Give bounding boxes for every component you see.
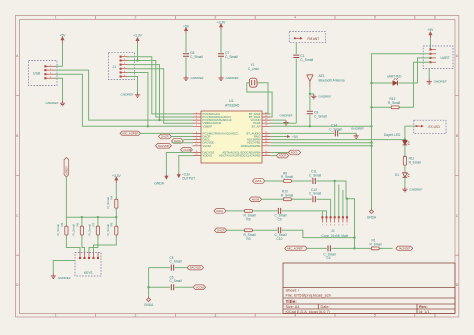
svg-text:GNDREF: GNDREF (318, 94, 331, 98)
wire VCOM to U1 (191, 145, 194, 147)
capacitor C5 (149, 256, 187, 271)
connector UART pin 2 (430, 53, 436, 54)
wire J1 pin3 to row3 net (127, 65, 159, 121)
global label DACVDD bottom (187, 265, 203, 270)
wire C5 C6 left rail (148, 268, 150, 297)
connector USB pin 1 (45, 65, 56, 67)
svg-text:R5: R5 (60, 222, 64, 226)
crystal Y1 (248, 63, 259, 87)
U1 left pin names (203, 112, 240, 158)
svg-text:R7: R7 (91, 222, 95, 226)
junction J1 pin3 (158, 119, 160, 121)
resistor R11 (403, 156, 421, 172)
power +3.3V P2 (133, 34, 143, 44)
ground GNDREF J1 (120, 92, 140, 97)
connector J2 USB dashed box (28, 61, 57, 86)
svg-text:AVOL: AVOL (255, 179, 262, 183)
capacitor C9 (275, 208, 327, 222)
power +5V P3 (183, 24, 190, 33)
diode D1 (395, 173, 410, 187)
svg-text:VCOM: VCOM (203, 144, 212, 148)
svg-text:R_Small: R_Small (409, 160, 421, 164)
wire UART pin2 rail left (372, 54, 431, 209)
ground GNDREF D1 (402, 187, 422, 192)
wire antenna down (309, 87, 311, 110)
svg-text:GNDREF: GNDREF (434, 79, 447, 83)
svg-text:GNDREF: GNDREF (226, 76, 239, 80)
svg-text:AE1: AE1 (319, 74, 325, 78)
svg-text:ATS32R6: ATS32R6 (225, 103, 240, 107)
svg-text:GNDREF: GNDREF (191, 76, 204, 80)
wire U1 DODGATE to rail (270, 145, 371, 147)
junction day LED (404, 138, 406, 140)
svg-text:R6: R6 (75, 222, 79, 226)
wire U1 BT_AP long right (270, 125, 371, 127)
junction DODGATE rail (370, 145, 372, 147)
power flag GNDA below U1 (154, 175, 168, 186)
wire DACL to U1 (183, 139, 193, 141)
resistor R6a (265, 171, 312, 182)
ground GNDREF U1 row3 (270, 113, 292, 125)
wire J1 pin4 to IC row4 (127, 69, 193, 124)
wire extra drop J3 pin6 (342, 190, 344, 217)
junction ADC7 rail (370, 142, 372, 144)
svg-text:Size: A4: Size: A4 (286, 305, 300, 309)
LED D2 Day/nt (384, 133, 410, 157)
svg-text:MIC_AGREF: MIC_AGREF (287, 247, 303, 251)
title block text size date (286, 305, 430, 314)
resistor R10 (262, 190, 312, 201)
svg-text:+5V: +5V (427, 28, 434, 32)
resistor R8 (94, 217, 118, 252)
svg-text:C_Small: C_Small (309, 192, 321, 196)
svg-text:JACKDET: JACKDET (398, 247, 411, 251)
svg-text:+3.3V: +3.3V (217, 21, 227, 25)
wire U1 ADC7 to rail (270, 142, 371, 144)
junction keys rail 1 (81, 216, 83, 218)
svg-text:R_Small: R_Small (88, 224, 92, 236)
svg-text:ADCR: ADCR (279, 154, 287, 158)
connector FM ANT dashed box (289, 32, 325, 43)
frame row ticks left (16, 96, 20, 256)
svg-text:FM ANT: FM ANT (308, 37, 320, 41)
frame row letters left (16, 54, 19, 287)
wire DACR to U1 (171, 136, 193, 138)
wire +3.3V to J1 pin1 (137, 44, 139, 61)
junction pin7 jog (346, 198, 348, 200)
capacitor C8 decoupling (183, 34, 203, 76)
op-amp U1 body (201, 99, 262, 163)
title block (283, 263, 455, 314)
wire USB pin3 to IC VSBDP (55, 74, 193, 126)
wire DACVDD to U1 (171, 142, 193, 144)
svg-text:2: 2 (135, 314, 137, 318)
svg-text:+3.3V: +3.3V (112, 174, 122, 178)
wire J1 pin6 to ground (127, 77, 137, 93)
global label DACL bottom (214, 209, 226, 214)
capacitor C8 bluetooth (307, 110, 327, 126)
svg-text:R_Small: R_Small (281, 193, 293, 197)
svg-text:Rev:: Rev: (419, 304, 428, 309)
svg-text:R3: R3 (247, 237, 251, 241)
svg-text:4: 4 (294, 314, 296, 318)
global label DACVDD left (156, 144, 172, 149)
global label VCOM left (181, 148, 193, 153)
ground GNDREF UART (427, 69, 447, 85)
svg-text:2: 2 (135, 16, 137, 20)
junction C6 rail (147, 286, 149, 288)
wire MIC_AGREF to U1 (140, 132, 193, 134)
junction keys rail 2 (97, 216, 99, 218)
wire ADKEY down (66, 177, 116, 217)
svg-text:DACVDD: DACVDD (190, 266, 201, 270)
power GNDA right rail (367, 209, 377, 220)
svg-text:1: 1 (55, 16, 57, 20)
junction J1 pin2 +3.3V (136, 59, 138, 61)
frame column ticks bottom (96, 314, 415, 318)
svg-text:Date:: Date: (321, 305, 330, 309)
capacitor C12 (309, 188, 331, 202)
connector KEYS pin 4 (93, 252, 94, 258)
power flag +3.3V OUTPUT (177, 173, 195, 181)
svg-text:5: 5 (374, 314, 376, 318)
junction LED rail left (370, 82, 372, 84)
global label DACL left (172, 139, 184, 144)
svg-text:GNDREF: GNDREF (280, 113, 293, 117)
svg-text:C_Small: C_Small (309, 173, 321, 177)
global label JACKDET (396, 246, 413, 251)
svg-text:DACR: DACR (217, 228, 225, 232)
svg-text:R_Small: R_Small (388, 101, 400, 105)
connector J1 dashed box (108, 53, 134, 80)
svg-text:R_Small: R_Small (106, 197, 110, 209)
frame column numbers bottom (55, 314, 436, 318)
wire +5V to UART pin1 (429, 38, 431, 50)
global label AVOR (249, 197, 261, 202)
svg-text:U1: U1 (229, 99, 234, 103)
power +5V UART P5 (427, 28, 434, 38)
svg-text:ADKEY: ADKEY (65, 166, 69, 175)
global label ADKEY vertical (64, 158, 69, 177)
connector KEYS pin 2 (84, 252, 85, 258)
svg-text:+3.3V: +3.3V (133, 34, 143, 38)
junction row A drop (334, 180, 336, 182)
svg-text:3: 3 (214, 314, 216, 318)
svg-text:C_Small: C_Small (314, 114, 327, 118)
svg-text:Bluetooth Antenna: Bluetooth Antenna (319, 78, 345, 82)
svg-text:3: 3 (214, 16, 216, 20)
resistor R4 (106, 183, 118, 217)
junction keys rail 3 (115, 216, 117, 218)
capacitor C4 (307, 245, 354, 260)
frame row letters right (456, 54, 459, 287)
svg-text:GNDREF: GNDREF (58, 276, 71, 280)
connector J1 pin 1 (120, 55, 129, 57)
power GNDA bottom left (144, 297, 154, 307)
connector J1 pin 2 (120, 59, 129, 61)
svg-text:J3: J3 (331, 229, 335, 233)
power +5V P1 (60, 34, 67, 43)
svg-text:DACVDD: DACVDD (158, 144, 169, 148)
wire UART pin3 to LED row (418, 58, 431, 83)
svg-text:GNDREF: GNDREF (45, 101, 58, 105)
title block text sheet (286, 287, 331, 297)
svg-text:uART R/D: uART R/D (387, 75, 402, 79)
svg-text:OUTPUT: OUTPUT (182, 176, 195, 180)
ground GNDREF KEYS (51, 274, 71, 280)
svg-text:GNDA: GNDA (154, 182, 165, 186)
svg-text:DODGATE/PB2: DODGATE/PB2 (241, 144, 261, 148)
connector KEYS dashed box (75, 253, 101, 277)
capacitor C1 FM coupling (293, 43, 313, 124)
frame column numbers top (55, 16, 436, 20)
svg-text:DACL: DACL (216, 209, 224, 213)
connector USB pin 4 (45, 77, 56, 79)
svg-text:+5V: +5V (292, 135, 299, 139)
svg-text:GNDA: GNDA (144, 303, 154, 307)
connector J3 pin numbers (322, 225, 349, 227)
svg-text:C_unse: C_unse (248, 67, 259, 71)
wire extra drop J3 pin5 (338, 185, 340, 218)
global label MIC_AGREF (120, 131, 140, 136)
connector J1 pin 4 (120, 67, 129, 69)
svg-text:GNDREF: GNDREF (409, 187, 422, 191)
global label DACR bottom (215, 228, 227, 233)
svg-text:KEYS: KEYS (84, 271, 93, 275)
wire row B to J3 pin3 (330, 199, 332, 217)
wire J3 pin7 from jog (346, 199, 348, 218)
svg-text:ADCTA/AUXOR/SDOCLATA/PB5: ADCTA/AUXOR/SDOCLATA/PB5 (219, 154, 261, 158)
svg-text:EX LED: EX LED (429, 125, 441, 129)
svg-text:6: 6 (434, 314, 436, 318)
resistor R3 (227, 229, 277, 241)
wire J1 pin2 to IC row2 (127, 61, 193, 118)
connector KEYS pin 5 (97, 252, 98, 258)
svg-text:D1: D1 (395, 173, 399, 177)
frame row ticks right (455, 96, 459, 256)
U1 left pin stubs (193, 114, 201, 156)
wire +5V to USB pin1 (62, 43, 64, 66)
svg-text:C10: C10 (277, 237, 283, 241)
svg-text:VCOM: VCOM (183, 148, 192, 152)
connector J3 labels (322, 229, 349, 238)
svg-text:C_Small: C_Small (329, 128, 342, 132)
ground GNDREF antenna (310, 94, 331, 99)
svg-text:KiCad E.D.A. kicad (6.0.7): KiCad E.D.A. kicad (6.0.7) (286, 310, 331, 314)
U1 right pin names (219, 112, 261, 158)
svg-text:Conn_01x08_Male: Conn_01x08_Male (322, 234, 349, 238)
connector UART pin 3 (430, 57, 436, 58)
resistor R12 (372, 97, 414, 109)
svg-text:GNDREF: GNDREF (120, 93, 133, 97)
svg-text:GNDREF: GNDREF (351, 127, 364, 131)
svg-text:R_Small: R_Small (281, 175, 293, 179)
svg-text:6: 6 (434, 16, 436, 20)
resistor R1 (355, 239, 393, 250)
svg-text:C9: C9 (278, 217, 282, 221)
wire row A to J3 pin4 (334, 181, 336, 217)
LED D3 uART R/D (372, 75, 418, 86)
ground GNDREF C7 (218, 76, 238, 81)
svg-text:+5V: +5V (60, 34, 67, 38)
wire crystal right to U1 row1 (257, 83, 270, 114)
junction C8bt row (309, 125, 311, 127)
global label AVOL (253, 179, 265, 184)
connector J1 pin 5 (120, 71, 129, 73)
ground GNDREF USB (45, 101, 65, 106)
svg-text:R_Small: R_Small (106, 224, 110, 236)
svg-text:Day/nt LED: Day/nt LED (384, 133, 401, 137)
global label MIC_AGREF bottom (285, 246, 307, 251)
svg-text:UART: UART (441, 56, 450, 60)
connector USB pin 2 (45, 68, 56, 70)
svg-text:DACR: DACR (161, 135, 169, 139)
wire U1 VDDVS to +3.3V output flag (179, 156, 193, 173)
wire UART pin4 to R12 row (414, 62, 431, 107)
svg-text:C_Small: C_Small (225, 55, 238, 59)
wire KEYS to ground (53, 261, 75, 274)
power flag +5V right of U1 (270, 135, 298, 139)
global label ADCR right (270, 153, 288, 158)
resistor R5 (56, 217, 80, 252)
global label VCOM bottom (193, 285, 205, 290)
svg-text:GNDA: GNDA (367, 215, 377, 219)
capacitor C14 on BT_AUDIO (270, 124, 356, 137)
wire U1 row4 to C1 (270, 122, 296, 124)
junction row5 rail (370, 125, 372, 127)
svg-text:4: 4 (294, 16, 296, 20)
svg-text:File: BT5Stproj.kicad_sch: File: BT5Stproj.kicad_sch (286, 293, 331, 298)
wire USB pin1 to +5V (55, 65, 62, 67)
wire EX LED to day LED (405, 126, 417, 140)
svg-text:MIC_AGREF: MIC_AGREF (123, 132, 139, 136)
connector EX LED dashed box (414, 120, 446, 134)
connector J1 pin 3 (120, 63, 129, 65)
power +3.3V keys (112, 174, 122, 183)
ground GNDREF C8 (183, 76, 203, 81)
U1 right pin numbers (265, 112, 268, 156)
wire USB pin4 to ground (55, 78, 62, 101)
svg-text:C4: C4 (327, 256, 331, 260)
resistor R6k (72, 217, 85, 252)
svg-text:R_Small: R_Small (370, 243, 382, 247)
global label ADCL right (270, 150, 300, 155)
power +3.3V P4 (217, 21, 227, 30)
svg-text:R_Small: R_Small (56, 224, 60, 236)
svg-text:AVOR: AVOR (252, 197, 259, 201)
junction J1 pin5 (147, 125, 149, 127)
wire USB pin2 to IC row3 (55, 70, 193, 120)
connector J1 pin 6 (120, 75, 129, 77)
connector J3 pins (322, 217, 348, 223)
connector UART dashed box (423, 46, 453, 69)
svg-text:R8: R8 (110, 222, 114, 226)
svg-text:R9: R9 (247, 217, 251, 221)
svg-text:USB: USB (33, 71, 41, 75)
svg-text:J1: J1 (113, 65, 117, 69)
svg-text:ADCL: ADCL (291, 151, 299, 155)
junction rail C10 (353, 236, 355, 238)
capacitor C11 (309, 170, 355, 249)
svg-text:C_Small: C_Small (300, 58, 313, 62)
U1 left pin numbers (195, 112, 198, 156)
wire U1 ADC6 to day LED (270, 139, 405, 141)
svg-text:C_Small: C_Small (170, 279, 182, 283)
connector KEYS pin 1 (79, 252, 80, 258)
junction R12 rail left (370, 106, 372, 108)
svg-text:R_Small: R_Small (72, 224, 76, 236)
connector UART pin 4 (430, 62, 436, 63)
svg-text:VDDVS: VDDVS (203, 154, 213, 158)
wire J1 pin1 to IC row1 (127, 57, 193, 114)
svg-text:BT_AP: BT_AP (252, 124, 261, 128)
frame column ticks top (96, 16, 415, 20)
resistor R7 (88, 217, 100, 252)
capacitor C6 (149, 275, 193, 290)
svg-text:VSBDP: VSBDP (203, 124, 213, 128)
wire crystal left to U1 row2 (247, 83, 272, 117)
antenna AE1 bluetooth (307, 74, 345, 88)
svg-text:+5V: +5V (183, 24, 190, 28)
svg-text:VCOM: VCOM (196, 285, 205, 289)
svg-text:Id: 1/1: Id: 1/1 (419, 310, 430, 314)
connector KEYS pin 3 (88, 252, 89, 258)
U1 right pin stubs (262, 114, 270, 156)
svg-text:R4: R4 (110, 195, 114, 199)
resistor R9 (226, 210, 277, 222)
global label DACR left (159, 134, 172, 139)
capacitor C7 decoupling (218, 30, 238, 76)
wire U1 DACVSS to GNDA flag (166, 153, 193, 175)
junction C4 rail (353, 247, 355, 249)
capacitor C10 (275, 227, 355, 241)
connector UART pin 1 (430, 49, 436, 50)
connector USB pin 3 (45, 73, 56, 75)
svg-text:C_Small: C_Small (170, 260, 182, 264)
junction antenna gnd (309, 93, 311, 95)
svg-text:5: 5 (374, 16, 376, 20)
wire J1 pin5 to VSBDP net (127, 73, 148, 127)
svg-text:C_Small: C_Small (190, 55, 203, 59)
ground GNDREF C14 (351, 127, 364, 139)
svg-text:1: 1 (55, 314, 57, 318)
